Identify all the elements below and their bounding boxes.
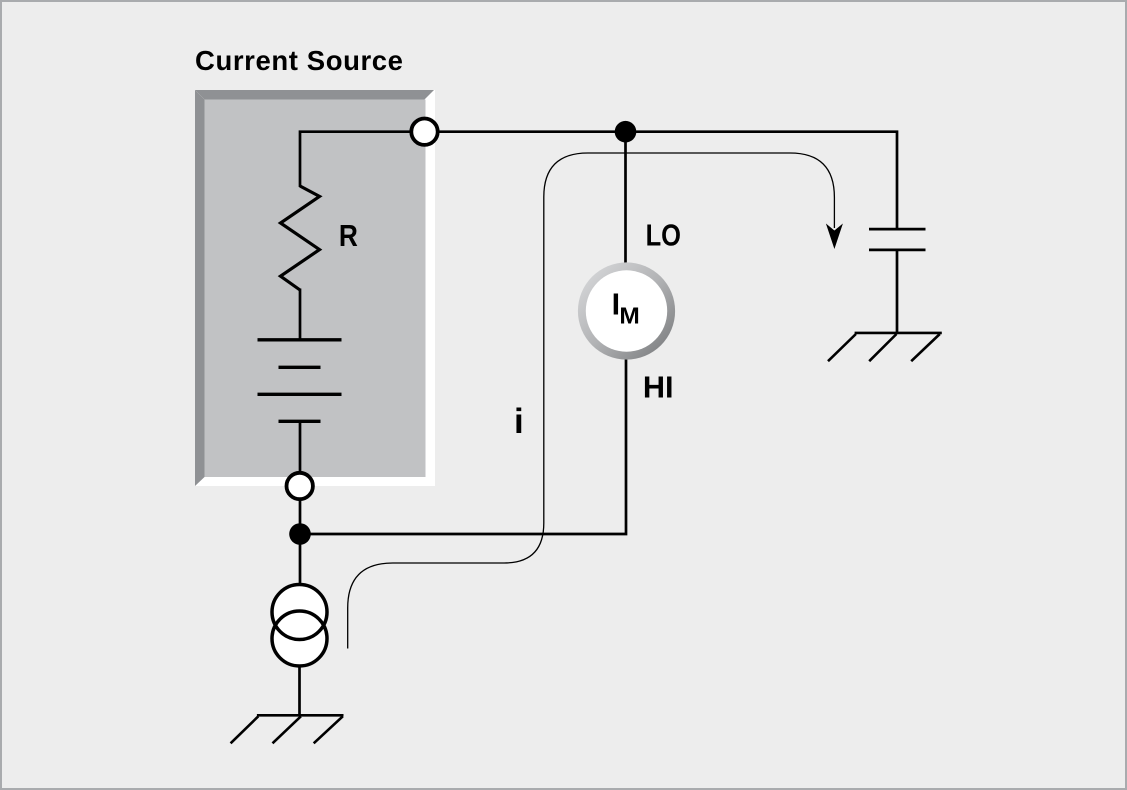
- current source box (shaded panel): [195, 90, 435, 486]
- ground (right): [828, 333, 942, 361]
- svg-text:Current Source: Current Source: [195, 45, 404, 76]
- meter M1 (gradient ring): [578, 262, 675, 359]
- ground (left): [231, 715, 344, 743]
- wire: bottom terminal through junction to current source: [299, 498, 302, 585]
- svg-text:HI: HI: [643, 370, 674, 405]
- wire: capacitor to ground: [896, 250, 899, 333]
- battery B1: [258, 340, 342, 422]
- node junction top: [615, 121, 637, 143]
- capacitor C1: [869, 229, 926, 250]
- arrowhead of current loop: [826, 224, 843, 250]
- wire: meter HI down and across to bottom junction: [300, 359, 626, 534]
- svg-text:i: i: [514, 402, 524, 441]
- wire: battery to bottom terminal: [299, 421, 302, 474]
- wire: junction to meter LO: [624, 132, 627, 264]
- current loop i (thin line with arrow): [348, 153, 835, 649]
- resistor R: [281, 186, 320, 290]
- svg-text:R: R: [339, 219, 358, 253]
- top terminal (open circle): [411, 119, 437, 145]
- current source I1 (double circle): [272, 585, 327, 667]
- wire: top rail to capacitor: [438, 132, 897, 229]
- wire: resistor to battery: [299, 289, 302, 340]
- node junction bottom: [289, 523, 311, 545]
- bottom terminal (open circle): [287, 473, 313, 499]
- svg-text:LO: LO: [646, 218, 681, 253]
- svg-text:M: M: [619, 303, 639, 329]
- wire: box internal top (node to terminal): [300, 132, 424, 187]
- wire: current source to ground: [298, 666, 301, 715]
